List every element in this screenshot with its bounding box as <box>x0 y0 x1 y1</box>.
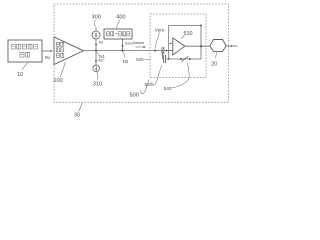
outer dashed box 30 (sensing circuit) <box>54 4 229 102</box>
feedback vertical left <box>168 26 170 60</box>
svg-text:20: 20 <box>211 62 217 68</box>
panel text line2 <box>20 52 30 57</box>
label Isense with current arrow <box>133 41 146 48</box>
svg-text:520: 520 <box>136 57 144 62</box>
op-amp 510 <box>173 38 185 55</box>
feedback vertical right <box>200 26 202 60</box>
svg-text:Izero: Izero <box>125 41 133 45</box>
junction bottom row <box>168 58 170 60</box>
display panel box 10 <box>8 40 42 62</box>
panel text line1 (Korean glyph blobs) <box>11 44 37 49</box>
main wire amp output to integrator <box>84 50 163 52</box>
svg-text:500: 500 <box>130 93 139 99</box>
svg-text:Ib2: Ib2 <box>99 59 104 63</box>
label 20 <box>211 52 217 68</box>
label 530 <box>145 65 162 88</box>
amplifier triangle 100 <box>54 37 84 65</box>
svg-text:Rx: Rx <box>45 55 51 60</box>
svg-text:400: 400 <box>116 15 125 21</box>
current source 300 stem with down arrow <box>95 28 97 51</box>
svg-text:300: 300 <box>92 15 101 21</box>
feedback top wire <box>169 25 201 27</box>
amp inner vertical text (Korean glyph blobs, 2 columns) <box>56 42 64 57</box>
svg-text:510: 510 <box>184 31 193 37</box>
op-amp upper input wire <box>169 42 173 44</box>
integrator dashed box 500 <box>150 14 206 78</box>
current source 310 circle <box>93 65 100 72</box>
stem box400 to N2 with down arrow <box>122 39 124 51</box>
Vpre label and bias lead <box>155 28 165 49</box>
svg-text:310: 310 <box>93 82 102 88</box>
svg-text:100: 100 <box>53 78 62 84</box>
svg-text:10: 10 <box>17 72 23 78</box>
label 500 <box>130 80 149 99</box>
svg-text:Vpre: Vpre <box>155 28 165 33</box>
node at Vpre connection <box>154 50 156 52</box>
label 510 <box>181 31 192 39</box>
junction top feedback <box>200 25 202 27</box>
label 10 <box>17 63 27 78</box>
wire: panel to amp with arrowhead <box>42 50 53 53</box>
current source 310 stem below N1 <box>95 51 97 66</box>
input capacitor plates <box>162 47 164 54</box>
node N1 junction <box>95 49 97 51</box>
svg-text:Isense: Isense <box>133 41 144 45</box>
output wire <box>185 45 210 47</box>
label 520 with leader <box>136 57 150 62</box>
svg-text:30: 30 <box>74 113 80 119</box>
label 30 <box>74 103 82 119</box>
svg-text:540: 540 <box>164 86 172 92</box>
label 300 <box>92 15 101 27</box>
ADC hexagon 20 <box>210 40 226 52</box>
label 540 <box>164 63 190 93</box>
node N2 junction <box>121 49 123 51</box>
charge removal box 400 <box>104 29 132 39</box>
feedback bottom row left connector <box>161 51 163 60</box>
output line with arrow <box>226 45 238 47</box>
label N2 <box>123 52 129 64</box>
svg-text:N2: N2 <box>123 59 129 64</box>
feedback bottom row wire <box>166 58 201 60</box>
label 310 <box>93 72 102 88</box>
current source 300 circle <box>92 31 100 39</box>
label 400 <box>116 15 125 29</box>
switch 540 contacts and blade <box>180 58 182 60</box>
svg-text:Ib1: Ib1 <box>99 41 104 45</box>
feedback capacitor 530 plates <box>164 55 166 63</box>
label N1 <box>97 52 106 59</box>
box400 text (Korean glyph blobs with hyphen) <box>106 32 130 36</box>
label 100 <box>53 62 65 85</box>
junction before op-amp <box>166 50 168 52</box>
output junction <box>200 45 202 47</box>
